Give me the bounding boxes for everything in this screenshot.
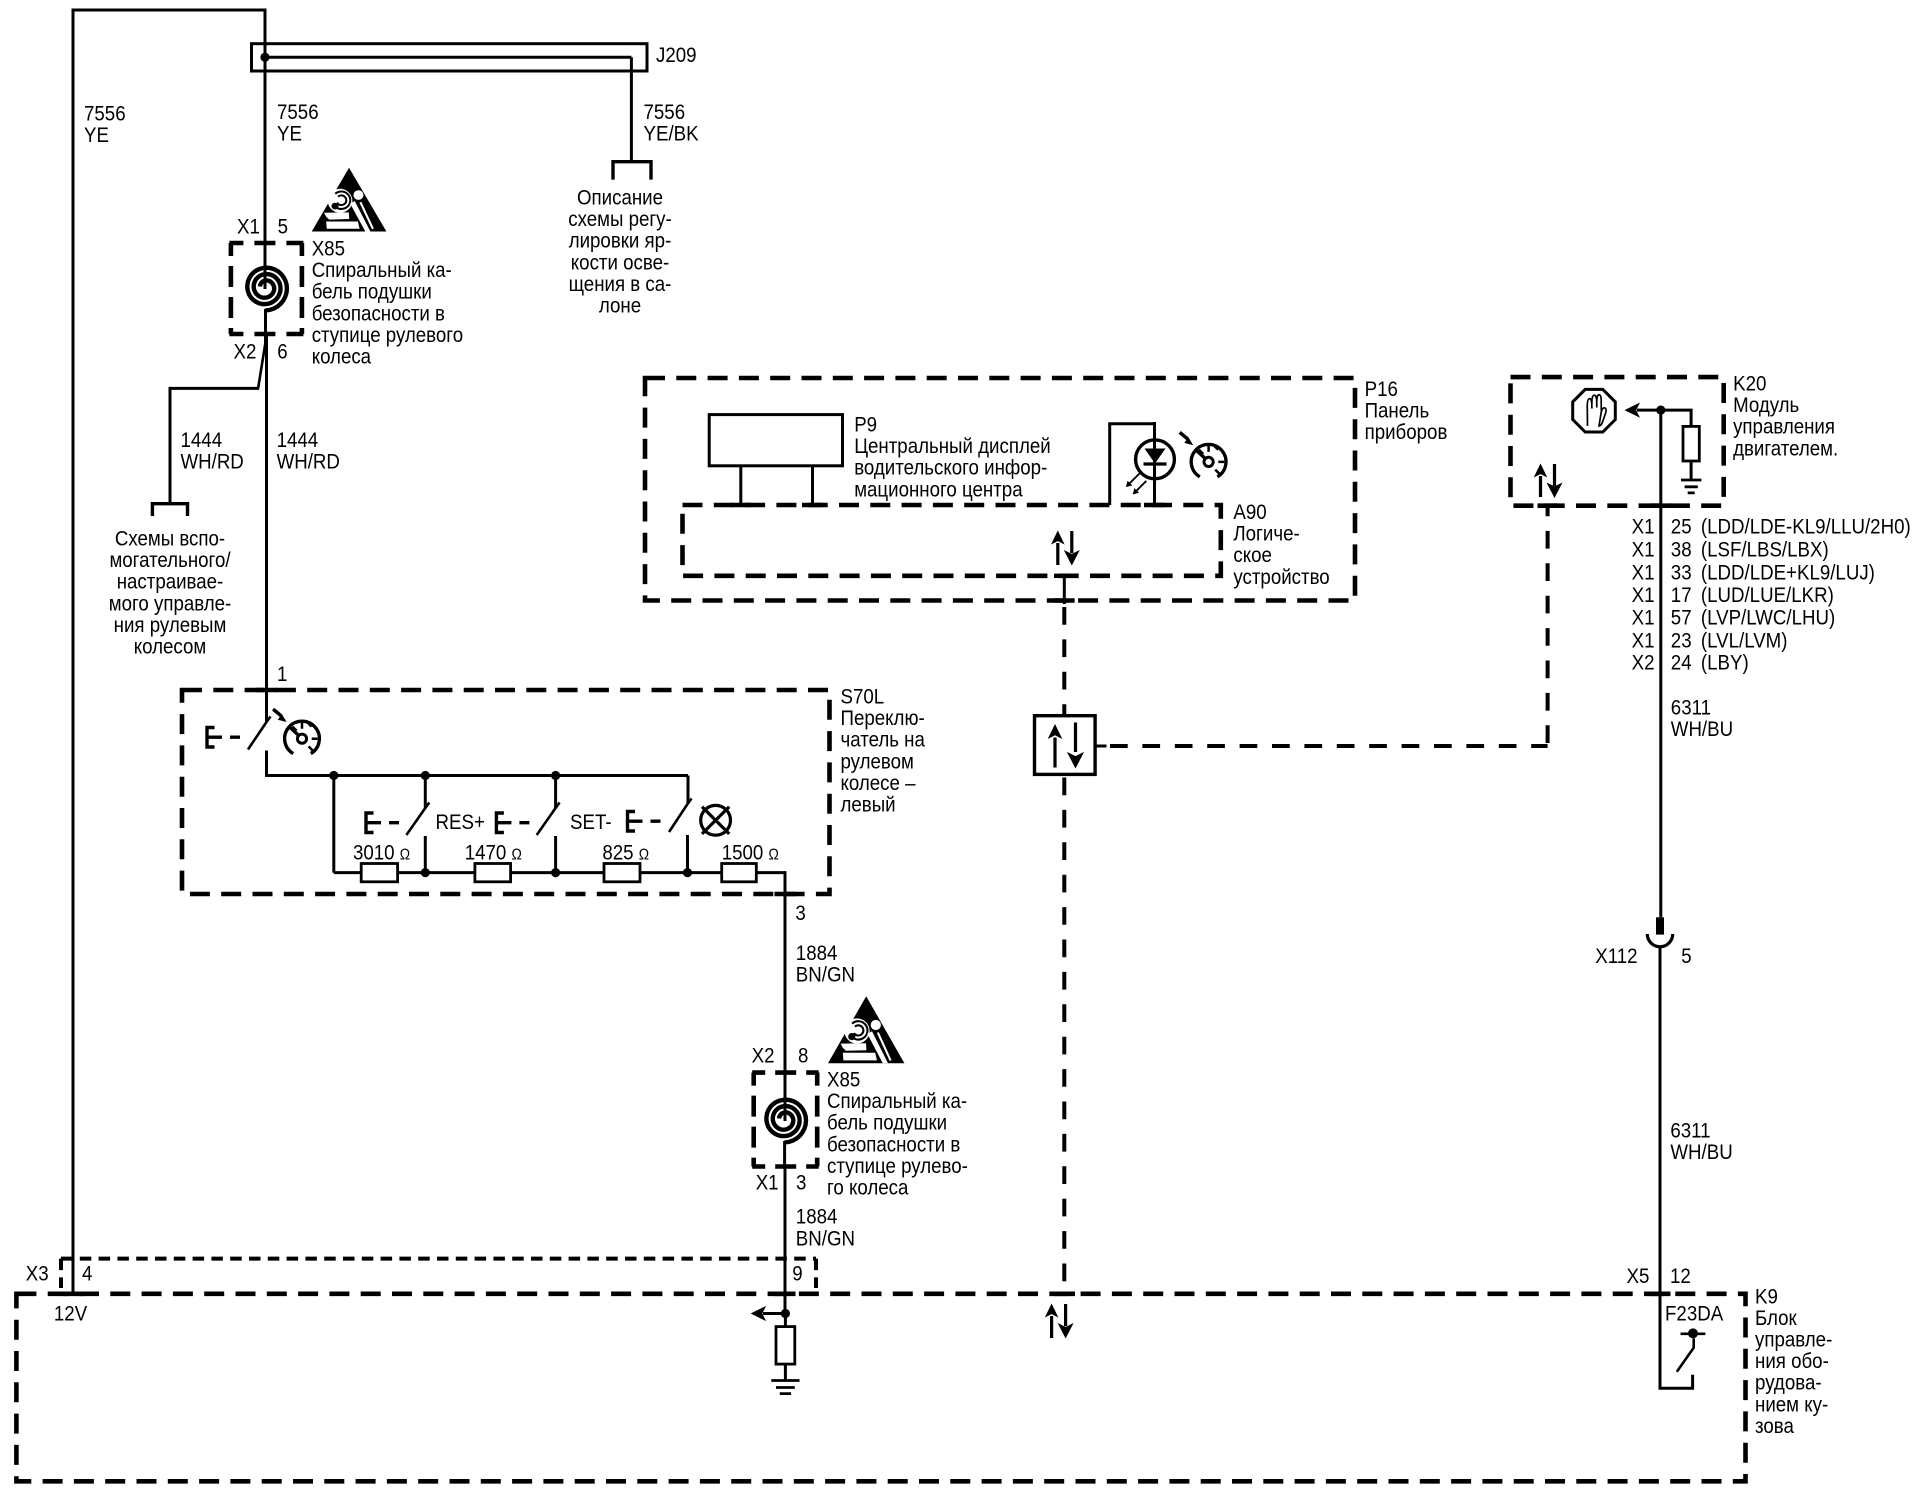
svg-text:бель подушки: бель подушки xyxy=(827,1112,947,1135)
svg-text:X1: X1 xyxy=(756,1172,779,1195)
svg-text:мого управле-: мого управле- xyxy=(109,592,232,615)
svg-text:X1: X1 xyxy=(1632,562,1655,585)
svg-text:лировки яр-: лировки яр- xyxy=(569,230,672,253)
wire 1444 WH/RD branch horizontal xyxy=(170,387,259,390)
svg-text:ступице рулево-: ступице рулево- xyxy=(827,1155,968,1178)
svg-text:(LDD/LDE-KL9/LLU/2H0): (LDD/LDE-KL9/LLU/2H0) xyxy=(1701,516,1911,539)
display unit P9 xyxy=(709,415,842,466)
svg-text:(LDD/LDE+KL9/LUJ): (LDD/LDE+KL9/LUJ) xyxy=(1701,562,1875,585)
backlight LED bracket wire xyxy=(1110,424,1155,505)
svg-text:бель подушки: бель подушки xyxy=(312,281,432,304)
svg-text:X1: X1 xyxy=(1632,606,1655,629)
body control module K9 dashed box xyxy=(16,1294,1745,1482)
svg-text:1444: 1444 xyxy=(277,429,319,452)
K9 edge tick at pin 4 xyxy=(63,1292,84,1297)
svg-text:7556: 7556 xyxy=(277,101,319,124)
wire resistor to ground K20 xyxy=(1690,461,1693,480)
svg-text:5: 5 xyxy=(1681,945,1691,968)
svg-text:Схемы вспо-: Схемы вспо- xyxy=(115,528,225,551)
svg-text:X1: X1 xyxy=(1632,539,1655,562)
svg-text:3: 3 xyxy=(796,1172,806,1195)
svg-text:X1: X1 xyxy=(1632,516,1655,539)
svg-text:J209: J209 xyxy=(656,44,697,67)
svg-text:безопасности в: безопасности в xyxy=(312,302,445,325)
resistor 825 ohm xyxy=(556,864,688,882)
svg-text:(LBY): (LBY) xyxy=(1701,651,1749,674)
svg-text:6: 6 xyxy=(277,341,287,364)
wire X85 upper output xyxy=(264,309,267,347)
svg-text:X1: X1 xyxy=(1632,629,1655,652)
svg-text:P9: P9 xyxy=(854,414,877,437)
svg-text:колесе –: колесе – xyxy=(841,772,916,795)
svg-text:1: 1 xyxy=(277,663,287,686)
svg-text:могательного/: могательного/ xyxy=(109,549,230,572)
note text: auxiliary steering wheel controls schematics xyxy=(109,528,232,659)
serial data stub through A90/P16 edges xyxy=(1054,576,1075,604)
svg-text:BN/GN: BN/GN xyxy=(796,964,855,987)
note text: dimming schematic description xyxy=(568,187,672,318)
circuit breaker F23DA xyxy=(1660,1293,1705,1388)
svg-text:9: 9 xyxy=(792,1263,802,1286)
svg-text:нием ку-: нием ку- xyxy=(1755,1393,1828,1416)
svg-text:F23DA: F23DA xyxy=(1665,1302,1723,1325)
svg-text:ступице рулевого: ступице рулевого xyxy=(312,324,463,347)
switch actuating dashed link (SET-) xyxy=(501,821,533,824)
wire 1444 WH/RD branch diagonal xyxy=(258,336,266,388)
svg-text:чатель на: чатель на xyxy=(841,729,926,752)
resistor 3010 ohm xyxy=(334,864,426,882)
svg-text:мационного центра: мационного центра xyxy=(854,478,1023,501)
svg-text:левый: левый xyxy=(841,794,896,817)
svg-text:YE/BK: YE/BK xyxy=(644,123,699,146)
svg-text:23: 23 xyxy=(1671,629,1692,652)
svg-text:33: 33 xyxy=(1671,562,1692,585)
svg-text:го колеса: го колеса xyxy=(827,1177,909,1200)
junction dot bus/3010 xyxy=(329,771,338,780)
svg-text:(LVL/LVM): (LVL/LVM) xyxy=(1701,629,1788,652)
svg-text:6311: 6311 xyxy=(1670,1120,1710,1143)
serial data stub right of gateway xyxy=(1095,745,1106,748)
svg-text:колесом: колесом xyxy=(134,636,207,659)
wire left vertical 7556 YE to K9 pin 4 xyxy=(72,9,75,1294)
switch RES+ xyxy=(406,776,429,873)
svg-text:ния обо-: ния обо- xyxy=(1755,1350,1829,1373)
svg-text:Блок: Блок xyxy=(1755,1307,1797,1330)
svg-text:12V: 12V xyxy=(54,1302,87,1325)
switch SET- xyxy=(537,776,560,873)
svg-text:12: 12 xyxy=(1670,1265,1691,1288)
P9 leg right xyxy=(811,466,814,505)
airbag warning triangle (upper) xyxy=(312,168,387,232)
connector X85 dashed box (lower) xyxy=(752,1073,819,1167)
svg-text:схемы регу-: схемы регу- xyxy=(568,208,672,231)
serial data arrows inside K20 xyxy=(1534,464,1563,499)
svg-text:настраивае-: настраивае- xyxy=(117,571,224,594)
svg-text:двигателем.: двигателем. xyxy=(1733,437,1838,460)
wire to pull-up resistor K20 xyxy=(1661,410,1691,426)
serial data dashed line to K20 xyxy=(1110,508,1548,746)
switch E-contact bracket (lamp position) xyxy=(628,812,636,832)
serial data gateway box xyxy=(1035,716,1096,775)
gauge icon (cruise control) xyxy=(285,721,320,753)
K20 edge tick at wire 6311 xyxy=(1651,503,1672,508)
switch assembly S70L dashed box xyxy=(182,690,830,894)
svg-text:ское: ское xyxy=(1233,544,1272,567)
svg-text:безопасности в: безопасности в xyxy=(827,1133,960,1156)
svg-text:17: 17 xyxy=(1671,584,1692,607)
svg-text:K20: K20 xyxy=(1733,373,1766,396)
wire 6311 WH/BU to K9 xyxy=(1659,947,1662,1294)
svg-text:Логиче-: Логиче- xyxy=(1233,523,1299,546)
stop lamp octagon icon xyxy=(1573,389,1616,432)
svg-text:K9: K9 xyxy=(1755,1285,1778,1308)
resistor (K20 internal) xyxy=(1683,426,1699,461)
svg-text:Переклю-: Переклю- xyxy=(841,707,925,730)
svg-text:ния рулевым: ния рулевым xyxy=(114,614,227,637)
svg-text:(LSF/LBS/LBX): (LSF/LBS/LBX) xyxy=(1701,539,1829,562)
ground symbol K20 xyxy=(1681,480,1701,493)
svg-text:5: 5 xyxy=(278,216,288,239)
svg-text:водительского инфор-: водительского инфор- xyxy=(854,457,1047,480)
inline connector X112 pin 5 xyxy=(1647,917,1672,946)
svg-text:устройство: устройство xyxy=(1233,566,1329,589)
svg-text:Спиральный ка-: Спиральный ка- xyxy=(827,1090,967,1113)
junction dot resistor line 2 xyxy=(551,868,560,877)
svg-text:колеса: колеса xyxy=(312,346,372,369)
svg-text:A90: A90 xyxy=(1233,501,1266,524)
wire 1884 BN/GN to K9 pin 9 xyxy=(784,1167,787,1316)
svg-text:BN/GN: BN/GN xyxy=(796,1227,855,1250)
logic device A90 dashed box xyxy=(683,505,1221,576)
svg-text:управления: управления xyxy=(1733,416,1835,439)
wire 7556 YE/BK from J209 down xyxy=(630,57,633,160)
svg-text:Панель: Панель xyxy=(1365,400,1430,423)
svg-text:WH/RD: WH/RD xyxy=(277,451,340,474)
svg-text:зова: зова xyxy=(1755,1415,1794,1438)
svg-text:Центральный дисплей: Центральный дисплей xyxy=(854,435,1050,458)
junction dot resistor line 1 xyxy=(421,868,430,877)
serial data dashed line down to K9 xyxy=(1062,778,1066,1292)
wire resistor to ground K9 xyxy=(784,1364,787,1380)
backlight LED (instrument illumination) xyxy=(1136,422,1175,505)
svg-text:1884: 1884 xyxy=(796,1206,838,1229)
svg-text:25: 25 xyxy=(1671,516,1692,539)
off-page connector (interior lighting dimming) xyxy=(613,162,651,180)
label coil cable text (upper) xyxy=(312,259,463,368)
ground symbol K9 xyxy=(771,1381,799,1394)
cruise master switch blade S70L xyxy=(248,717,271,778)
arrow into K20 from wire 6311 xyxy=(1625,403,1661,418)
svg-text:рудова-: рудова- xyxy=(1755,1372,1822,1395)
svg-text:X1: X1 xyxy=(237,216,260,239)
svg-text:кости осве-: кости осве- xyxy=(571,251,669,274)
wire from cruise switch to resistor bus xyxy=(267,774,689,777)
svg-text:YE: YE xyxy=(84,124,109,147)
connector X85 dashed box (upper) xyxy=(229,243,303,334)
resistor 1470 ohm xyxy=(425,864,555,882)
switch actuating dashed link (lamp position) xyxy=(633,820,666,823)
svg-text:P16: P16 xyxy=(1365,378,1398,401)
svg-text:X85: X85 xyxy=(312,238,345,261)
lamp symbol (switch illumination) xyxy=(701,805,731,835)
svg-text:X5: X5 xyxy=(1627,1265,1650,1288)
svg-text:57: 57 xyxy=(1671,606,1692,629)
svg-text:(LUD/LUE/LKR): (LUD/LUE/LKR) xyxy=(1701,584,1834,607)
wire 1444 WH/RD branch vertical xyxy=(169,387,172,502)
serial data arrows inside K9 xyxy=(1045,1304,1074,1339)
svg-text:S70L: S70L xyxy=(841,686,885,709)
K9 edge tick at pin 9 xyxy=(775,1292,796,1297)
arrow pointing to cluster gauge xyxy=(1179,431,1194,445)
wire 1444 WH/RD down to S70L pin 1 xyxy=(265,336,268,722)
wire through X85 upper (airbag coil feed) xyxy=(264,243,267,289)
resistor (K9 internal) xyxy=(776,1327,795,1365)
svg-text:24: 24 xyxy=(1671,651,1692,674)
svg-text:7556: 7556 xyxy=(84,103,126,126)
junction dot resistor line 3 xyxy=(683,868,692,877)
svg-text:RES+: RES+ xyxy=(436,811,485,834)
junction dot bus/SET xyxy=(551,771,560,780)
K9 edge tick at pin 12 xyxy=(1650,1292,1671,1297)
switch E-contact bracket (cruise master) xyxy=(207,728,215,748)
svg-text:1444: 1444 xyxy=(181,429,223,452)
svg-text:(LVP/LWC/LHU): (LVP/LWC/LHU) xyxy=(1701,606,1835,629)
A90 edge tick at P9 right leg xyxy=(802,503,823,508)
airbag warning triangle (lower) xyxy=(828,996,904,1063)
instrument cluster P16 dashed box xyxy=(645,378,1355,601)
connector X3 dotted boundary xyxy=(61,1259,816,1288)
svg-text:Описание: Описание xyxy=(577,187,663,210)
clockspring coil symbol X85 (upper) xyxy=(247,268,287,311)
splice block J209 xyxy=(252,44,648,71)
svg-text:X85: X85 xyxy=(827,1069,860,1092)
svg-text:6311: 6311 xyxy=(1671,696,1711,719)
svg-text:приборов: приборов xyxy=(1365,421,1448,444)
junction dot bus/RES xyxy=(421,771,430,780)
svg-text:щения в са-: щения в са- xyxy=(569,273,672,296)
svg-text:4: 4 xyxy=(82,1263,93,1286)
wire 6311 WH/BU vertical from K20 xyxy=(1659,410,1662,917)
serial data dashed line down to gateway xyxy=(1062,607,1066,716)
junction on J209 xyxy=(260,53,269,62)
A90 edge tick at P9 left leg xyxy=(731,503,752,508)
label coil cable text (lower) xyxy=(827,1090,968,1199)
svg-text:управле-: управле- xyxy=(1755,1329,1832,1352)
svg-text:рулевом: рулевом xyxy=(841,750,914,773)
resistor 1500 ohm xyxy=(688,864,786,882)
switch (illumination position) xyxy=(669,776,692,873)
K20 edge tick at serial line xyxy=(1538,503,1559,508)
switch E-contact bracket (RES+) xyxy=(366,813,374,833)
svg-text:YE: YE xyxy=(277,123,302,146)
svg-text:X3: X3 xyxy=(26,1263,49,1286)
svg-text:38: 38 xyxy=(1671,539,1692,562)
svg-text:Спиральный ка-: Спиральный ка- xyxy=(312,259,452,282)
gauge icon (cluster) xyxy=(1191,444,1226,476)
svg-text:WH/RD: WH/RD xyxy=(181,451,244,474)
off-page connector (auxiliary steering wheel controls) xyxy=(152,504,187,516)
wire top horizontal 7556 YE xyxy=(73,9,265,12)
svg-text:8: 8 xyxy=(798,1045,808,1068)
switch E-contact bracket (SET-) xyxy=(496,813,504,833)
svg-text:WH/BU: WH/BU xyxy=(1671,718,1733,741)
S70L box edge tick at pin 1 xyxy=(256,688,277,693)
LED light emission arrows xyxy=(1126,474,1146,495)
svg-text:7556: 7556 xyxy=(644,101,686,124)
P9 leg left xyxy=(739,466,742,505)
svg-text:WH/BU: WH/BU xyxy=(1670,1141,1732,1164)
K9 edge tick at serial line xyxy=(1054,1292,1075,1297)
wire 7556 YE vertical into splice J209 xyxy=(264,9,267,244)
wire through X85 lower (top) xyxy=(784,1072,787,1121)
svg-text:3: 3 xyxy=(795,902,805,925)
svg-text:X1: X1 xyxy=(1632,584,1655,607)
label S70L description xyxy=(841,707,926,816)
S70L box edge tick at pin 3 xyxy=(775,892,796,897)
wire 1884 BN/GN from S70L pin 3 xyxy=(785,873,787,1073)
wire to resistor K9 xyxy=(784,1314,787,1327)
serial data arrows inside A90 xyxy=(1051,531,1080,566)
arrow inside K9 on pin 9 wire xyxy=(751,1306,786,1321)
svg-text:X112: X112 xyxy=(1595,945,1637,968)
wire drop to resistor 3010 xyxy=(332,776,335,873)
engine control module K20 dashed box xyxy=(1511,377,1724,506)
arrow pointing to cruise switch xyxy=(272,708,287,722)
svg-text:X2: X2 xyxy=(1632,651,1655,674)
svg-text:SET-: SET- xyxy=(570,811,612,834)
svg-text:X2: X2 xyxy=(752,1045,775,1068)
switch actuating dashed link (cruise master) xyxy=(212,736,245,739)
junction dot K9 xyxy=(781,1309,790,1318)
svg-text:Модуль: Модуль xyxy=(1733,394,1799,417)
junction dot K20 xyxy=(1656,406,1665,415)
svg-text:1884: 1884 xyxy=(796,942,838,965)
switch actuating dashed link (RES+) xyxy=(371,821,403,824)
svg-text:лоне: лоне xyxy=(599,295,641,318)
clockspring coil symbol X85 (lower) xyxy=(766,1100,806,1143)
svg-text:X2: X2 xyxy=(234,341,257,364)
wire X85 lower output xyxy=(783,1141,786,1167)
A90 edge tick at LED wire xyxy=(1144,503,1165,508)
